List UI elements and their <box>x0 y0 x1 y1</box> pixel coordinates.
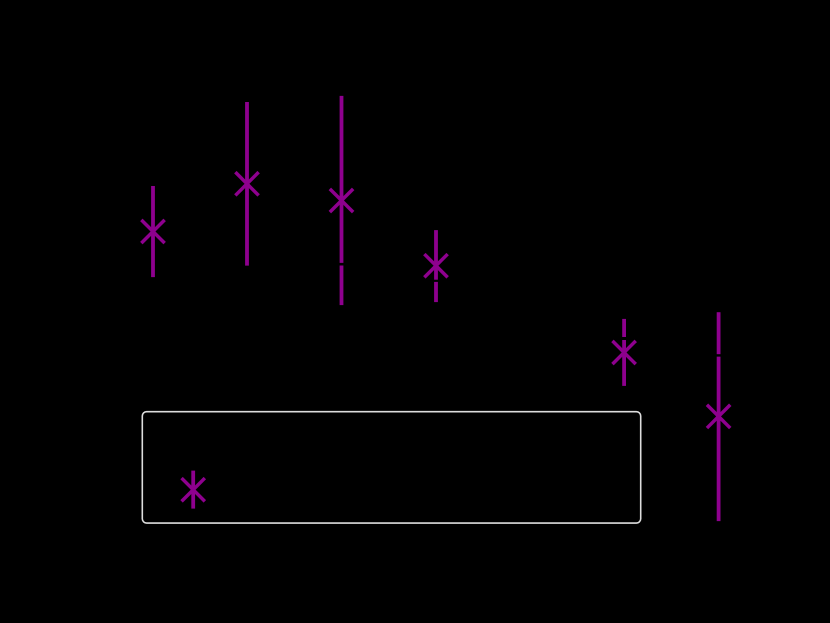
legend frame <box>142 412 640 523</box>
marker 5 <box>612 341 635 364</box>
errorbar 2 line <box>245 102 249 266</box>
errorbar 6 line (upper segment) <box>717 312 721 354</box>
errorbar 6 line (lower segment) <box>717 357 721 521</box>
marker 2 <box>235 172 258 195</box>
marker 4 <box>424 254 447 277</box>
errorbar 3 line (upper segment) <box>340 96 344 263</box>
legend sample errorbar line <box>191 471 195 509</box>
errorbar 5 line (lower segment) <box>622 340 626 386</box>
errorbar 5 line (upper segment) <box>622 319 626 337</box>
marker 1 <box>141 220 164 243</box>
errorbar 4 line (lower segment) <box>434 282 438 302</box>
marker 6 <box>707 405 730 428</box>
legend sample marker <box>182 478 205 501</box>
errorbar 3 line (lower segment) <box>340 266 344 306</box>
errorbar 4 line (upper segment) <box>434 230 438 280</box>
marker 3 <box>330 189 353 212</box>
errorbar 1 line <box>151 186 155 277</box>
